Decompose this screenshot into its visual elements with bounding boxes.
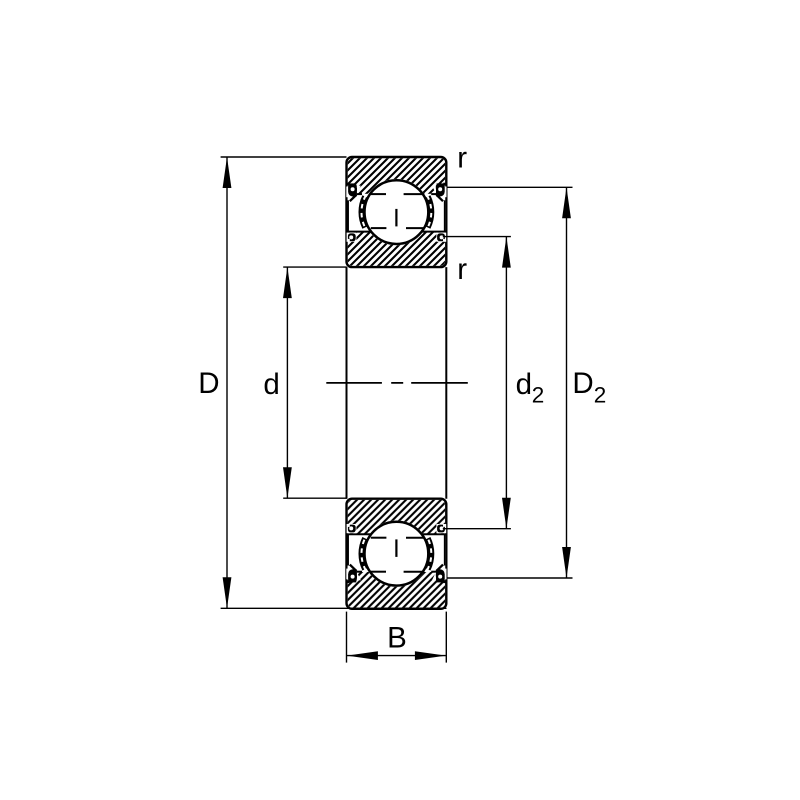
- bottom ring section outline: [347, 499, 447, 609]
- shield diagonal left bottom: [350, 565, 357, 571]
- bottom ball cavity: [363, 521, 429, 587]
- seal face line right bottom: [444, 534, 446, 565]
- svg-text:D: D: [198, 367, 219, 400]
- ball of bottom section: [365, 522, 429, 586]
- ball centre mark top: [395, 209, 397, 227]
- bottom inner ring shoulder step lines: [346, 533, 371, 535]
- top ring section outline: [347, 157, 447, 267]
- ball of top section: [365, 180, 429, 244]
- top outer ring land edge lines: [357, 193, 362, 195]
- seal anchor blob top-right top: [442, 187, 447, 198]
- top white gap between rings: [348, 194, 446, 231]
- top outer seal groove ledges: [346, 183, 350, 185]
- d2 extension top: [443, 236, 511, 238]
- axis centreline: [326, 382, 468, 384]
- shield R of top section: [425, 195, 434, 229]
- top ball cavity: [363, 179, 429, 245]
- D extension bottom: [221, 607, 447, 609]
- bottom hatched ring areas: [348, 500, 445, 608]
- dimension D line: [226, 157, 228, 608]
- seal anchor blob top-right bottom: [442, 569, 447, 580]
- top inner ring shoulder edge dashes: [371, 227, 387, 229]
- bottom white gap between rings: [348, 535, 446, 572]
- svg-text:r: r: [457, 142, 467, 175]
- bottom inner ring shoulder edge dashes: [371, 537, 387, 539]
- top inner ring shoulder step lines: [346, 231, 371, 233]
- seal anchor blob top-left top: [346, 187, 351, 198]
- svg-text:D: D: [572, 367, 593, 400]
- seal face line right top: [444, 200, 446, 231]
- ball centre mark bottom: [395, 539, 397, 557]
- svg-text:2: 2: [532, 383, 545, 408]
- seal lip blob bottom-right bottom: [436, 524, 446, 533]
- B extension left: [346, 612, 348, 663]
- dimension D2 line: [566, 187, 568, 578]
- svg-text:B: B: [387, 621, 407, 654]
- D2 extension bottom: [448, 577, 573, 579]
- shield R of bottom section: [425, 537, 434, 571]
- seal face line left top: [347, 200, 349, 231]
- seal lip blob bottom-right top: [436, 233, 446, 242]
- d extension top: [283, 266, 347, 268]
- shield diagonal left top: [350, 195, 357, 201]
- dimension B line: [347, 655, 446, 657]
- B extension right: [445, 612, 447, 663]
- shield diagonal right bottom: [436, 565, 443, 571]
- svg-text:d: d: [263, 368, 279, 401]
- d extension bottom: [283, 497, 347, 499]
- bore line right: [445, 267, 447, 499]
- top hatched ring areas: [348, 158, 445, 266]
- shield diagonal right top: [436, 195, 443, 201]
- svg-text:r: r: [457, 253, 467, 286]
- seal lip blob bottom-left bottom: [347, 524, 357, 533]
- bottom outer seal groove ledges: [346, 581, 350, 583]
- bottom outer ring land edge lines: [357, 571, 362, 573]
- seal face line left bottom: [347, 534, 349, 565]
- svg-text:d: d: [516, 368, 532, 401]
- D extension top: [221, 156, 347, 158]
- bore line left: [346, 267, 348, 499]
- d2 extension bottom: [443, 528, 511, 530]
- shield L of top section: [358, 195, 367, 229]
- dimension d line: [286, 267, 288, 498]
- shield L of bottom section: [358, 537, 367, 571]
- svg-text:2: 2: [594, 383, 607, 408]
- dimension d2 line: [505, 237, 507, 529]
- seal anchor blob top-left bottom: [346, 569, 351, 580]
- seal lip blob bottom-left top: [347, 233, 357, 242]
- D2 extension top: [448, 186, 573, 188]
